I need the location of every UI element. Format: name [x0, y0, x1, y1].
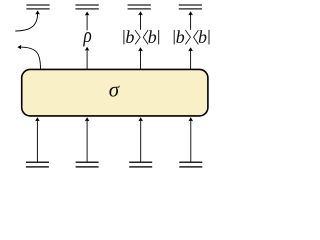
wire 2 lower segment arrow toward rho: [85, 47, 90, 70]
label b glyph: [176, 30, 184, 43]
label |b><b| bar left: [123, 30, 125, 45]
top terminal T2 double bar: [75, 5, 98, 9]
label |b><b| bar left: [173, 30, 175, 45]
bottom terminal B1 double bar: [26, 162, 49, 167]
label b glyph 2: [148, 30, 156, 43]
label b glyph: [126, 30, 134, 43]
curved wire B into top terminal T1 with up arrow: [15, 11, 40, 32]
bottom terminal B2 double bar: [76, 162, 99, 167]
top terminal T3 double bar: [128, 5, 151, 9]
bottom wire 3 arrow into box: [138, 117, 143, 161]
label rangle: [185, 30, 190, 44]
label ketbra 1: [124, 30, 159, 45]
wire 3 lower segment arrow toward label: [138, 47, 143, 69]
label ketbra 2: [174, 30, 209, 45]
label langle: [194, 30, 199, 44]
top terminal T1 double bar: [26, 5, 49, 9]
bottom terminal B4 double bar: [179, 162, 202, 167]
curved wire A from box with left arrow: [17, 45, 40, 70]
label langle: [143, 30, 148, 44]
wire 2 upper segment arrow into T2: [85, 12, 90, 31]
label rangle: [135, 30, 140, 44]
label bar right: [208, 30, 210, 45]
bottom wire 1 arrow into box: [35, 117, 40, 161]
bottom terminal B3 double bar: [129, 162, 152, 167]
label b glyph 2: [199, 30, 207, 43]
bottom wire 2 arrow into box: [85, 117, 90, 161]
label bar right: [158, 30, 160, 45]
top terminal T4 double bar: [179, 5, 202, 9]
wire 4 lower segment arrow toward label: [188, 47, 193, 69]
bottom wire 4 arrow into box: [188, 117, 193, 161]
label sigma: [109, 86, 119, 97]
wire 4 upper segment arrow into T4: [188, 11, 193, 30]
box sigma: [22, 69, 208, 116]
wire 3 upper segment arrow into T3: [138, 11, 143, 30]
label rho: [83, 32, 91, 46]
